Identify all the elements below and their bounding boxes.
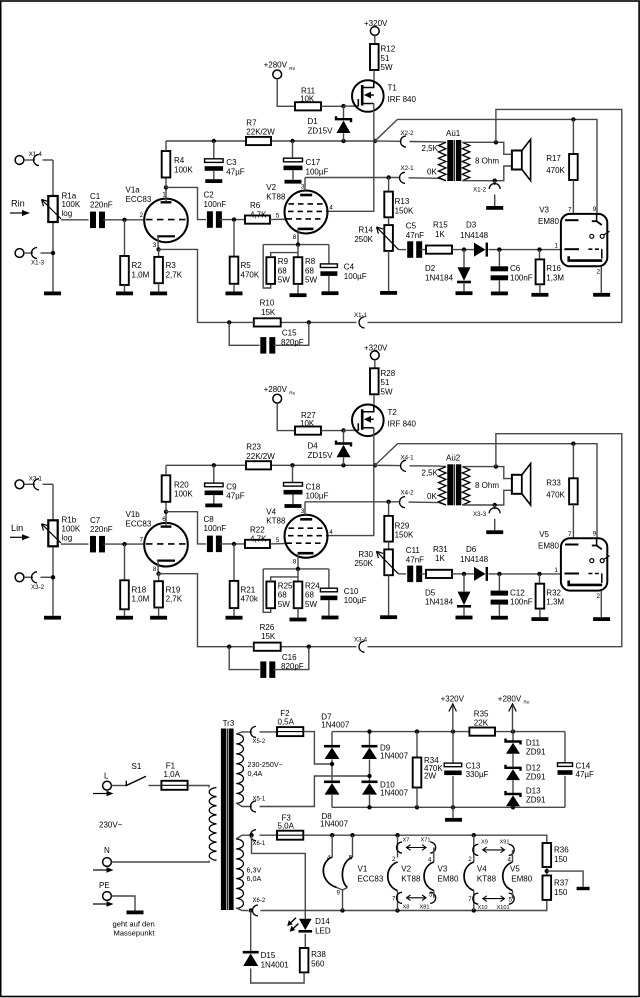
capacitor C13: [452, 732, 454, 764]
pentode V4: [285, 515, 328, 558]
ground D2: [456, 616, 473, 620]
ground C3: [205, 504, 222, 508]
ground speaker: [486, 206, 503, 210]
resistor R28: [370, 368, 379, 394]
svg-text:R24: R24: [305, 581, 320, 590]
zener D11: [512, 732, 514, 742]
svg-text:5: 5: [276, 213, 280, 220]
resistor R8: [297, 245, 299, 258]
svg-text:100µF: 100µF: [306, 492, 329, 501]
tube V5 heater: [503, 862, 513, 891]
mosfet T2: [352, 405, 384, 437]
svg-text:5: 5: [276, 537, 280, 544]
svg-text:1N4148: 1N4148: [460, 231, 489, 240]
svg-text:R26: R26: [260, 623, 275, 632]
svg-text:7: 7: [568, 531, 572, 538]
terminal +320V: [370, 27, 379, 36]
ground R14: [380, 615, 397, 619]
svg-text:V2: V2: [401, 865, 411, 874]
diode D15: [250, 911, 252, 952]
svg-text:1N4007: 1N4007: [380, 752, 409, 761]
svg-text:150K: 150K: [395, 531, 414, 540]
svg-text:T1: T1: [388, 84, 398, 93]
svg-text:R23: R23: [246, 443, 261, 452]
connector X1-3: [15, 249, 24, 258]
svg-text:ECC83: ECC83: [358, 874, 384, 883]
wire to heater ground: [547, 871, 583, 887]
svg-text:+320V: +320V: [441, 695, 465, 704]
svg-text:C11: C11: [406, 546, 421, 555]
svg-text:1K: 1K: [435, 230, 445, 239]
svg-text:100nF: 100nF: [510, 598, 533, 607]
wire rail to screen line: [375, 119, 398, 141]
svg-text:9: 9: [593, 530, 597, 537]
svg-text:X101: X101: [497, 905, 510, 911]
node R36 R37: [546, 867, 548, 876]
svg-text:+320V: +320V: [364, 343, 388, 352]
resistor R6: [245, 216, 270, 224]
svg-text:100K: 100K: [174, 165, 193, 174]
svg-text:EM80: EM80: [438, 874, 459, 883]
wire sec2 top / break X6-1: [236, 835, 250, 839]
led D14: [299, 919, 312, 930]
svg-text:68: 68: [305, 266, 314, 275]
ground R14: [380, 291, 397, 295]
svg-text:ZD91: ZD91: [526, 748, 546, 757]
resistor R22: [245, 540, 270, 548]
svg-text:R36: R36: [554, 846, 569, 855]
svg-text:R3: R3: [166, 261, 177, 270]
resistor R38: [304, 934, 306, 948]
wire V2 anode pin3: [304, 502, 306, 515]
wire input bus X3-1-X3-2: [52, 484, 54, 616]
svg-text:4: 4: [327, 855, 331, 862]
wire feedback loop: [368, 109, 622, 322]
svg-text:22K: 22K: [474, 719, 489, 728]
rectifier D8: [324, 780, 340, 783]
svg-text:2: 2: [140, 212, 144, 219]
svg-text:X6-2: X6-2: [253, 898, 266, 904]
svg-text:150: 150: [554, 888, 568, 897]
wire C2 to R6: [220, 543, 245, 545]
wire cathode rail: [263, 244, 329, 246]
ground C6: [491, 616, 508, 620]
svg-text:R31: R31: [433, 545, 448, 554]
fuse F2: [277, 727, 303, 736]
svg-text:4: 4: [329, 529, 333, 536]
svg-text:Rin: Rin: [11, 199, 25, 209]
svg-text:EM80: EM80: [538, 217, 559, 226]
wire V5 pin2 ground: [600, 591, 602, 618]
wire C2 to R6: [220, 219, 245, 221]
potentiometer R14: [388, 217, 390, 225]
svg-text:5: 5: [429, 892, 433, 899]
svg-text:470K: 470K: [546, 490, 565, 499]
svg-text:250K: 250K: [354, 235, 373, 244]
svg-text:230-250V~: 230-250V~: [248, 760, 283, 769]
svg-text:Tr3: Tr3: [223, 719, 235, 728]
svg-text:R33: R33: [546, 478, 561, 487]
svg-text:3: 3: [301, 184, 305, 191]
svg-text:100µF: 100µF: [306, 167, 329, 176]
secondary winding: [462, 467, 470, 505]
resistor R36: [543, 843, 552, 867]
ground C17: [285, 504, 302, 508]
ground heater: [577, 887, 590, 890]
svg-text:X1-3: X1-3: [31, 260, 45, 267]
svg-text:LED: LED: [315, 927, 331, 936]
wire anode supply rail: [166, 140, 375, 142]
resistor R31: [426, 570, 452, 578]
ground R16: [531, 293, 548, 297]
ground input: [44, 292, 61, 296]
resistor R13: [388, 178, 390, 192]
svg-text:geht auf den: geht auf den: [113, 920, 155, 929]
svg-text:10K: 10K: [300, 95, 315, 104]
wire cathode pin 3: [157, 236, 159, 249]
capacitor C16: [229, 647, 259, 670]
svg-text:1,3M: 1,3M: [546, 598, 564, 607]
svg-text:ZD15V: ZD15V: [308, 127, 334, 136]
svg-text:R22: R22: [250, 525, 265, 534]
svg-text:8 Ohm: 8 Ohm: [475, 157, 499, 166]
resistor R20: [165, 502, 167, 512]
wire heater rail top: [303, 835, 547, 843]
ground PE: [127, 911, 144, 915]
ground R8: [290, 293, 307, 297]
break X7 X71: [397, 835, 399, 857]
svg-text:0K: 0K: [427, 168, 437, 177]
svg-text:1N4184: 1N4184: [425, 273, 454, 282]
svg-text:V1: V1: [358, 865, 368, 874]
svg-text:220nF: 220nF: [90, 201, 113, 210]
svg-text:68: 68: [278, 591, 287, 600]
wire input bus X1-4-X1-3: [52, 160, 54, 292]
wire R6 to g1: [270, 218, 287, 220]
svg-text:X2-1: X2-1: [401, 165, 415, 172]
svg-text:D1: D1: [308, 117, 319, 126]
wire 0V rail: [332, 806, 565, 808]
wire R10 to cathode: [159, 574, 254, 647]
resistor R9: [263, 245, 271, 288]
node bridge AC1: [331, 760, 333, 781]
wire R10 to cathode: [159, 249, 254, 322]
zener D4: [343, 430, 345, 442]
secondary 230-250V winding: [236, 734, 243, 803]
resistor R15: [426, 246, 452, 254]
svg-text:1,0M: 1,0M: [132, 595, 150, 604]
ground C17: [285, 180, 302, 184]
svg-text:2: 2: [597, 593, 601, 600]
svg-text:X8: X8: [403, 905, 410, 911]
svg-text:C9: C9: [226, 482, 237, 491]
svg-text:R2: R2: [132, 261, 143, 270]
svg-text:1: 1: [555, 243, 559, 250]
wire sec1 top / break X5-2: [236, 732, 252, 734]
ground C6: [491, 292, 508, 296]
wire EM80 supply line: [398, 444, 598, 539]
svg-text:5W: 5W: [305, 600, 317, 609]
svg-text:330µF: 330µF: [466, 770, 489, 779]
svg-text:2: 2: [392, 856, 396, 863]
resistor R17: [572, 119, 574, 154]
potentiometer R30: [388, 542, 390, 550]
wire cathode rail: [263, 568, 329, 570]
svg-text:L: L: [104, 772, 109, 781]
svg-text:820pF: 820pF: [281, 338, 304, 347]
svg-text:7: 7: [140, 537, 144, 544]
svg-text:V5: V5: [539, 530, 549, 539]
wire wiper to C: [61, 543, 89, 545]
wire anode supply rail: [166, 464, 375, 466]
connector X3-1: [15, 480, 24, 489]
svg-text:log: log: [62, 209, 73, 218]
svg-text:C8: C8: [204, 515, 215, 524]
resistor R27: [295, 427, 321, 435]
mosfet T1: [352, 80, 384, 112]
svg-text:R1b: R1b: [62, 516, 77, 525]
resistor R26: [254, 643, 281, 651]
svg-text:4,7K: 4,7K: [250, 210, 267, 219]
svg-text:EM80: EM80: [538, 541, 559, 550]
svg-text:+280V: +280V: [264, 385, 288, 394]
wire EM80 supply line: [398, 119, 598, 214]
svg-text:4: 4: [508, 857, 512, 864]
wire LED feed: [252, 835, 306, 919]
wire wiper to C: [61, 219, 89, 221]
svg-text:C18: C18: [306, 482, 321, 491]
ground R3: [150, 292, 167, 296]
resistor R18: [124, 544, 126, 580]
svg-text:8 Ohm: 8 Ohm: [475, 481, 499, 490]
svg-text:47nF: 47nF: [406, 231, 424, 240]
capacitor C17: [292, 141, 294, 158]
svg-text:1N4007: 1N4007: [321, 721, 350, 730]
svg-text:R15: R15: [433, 221, 448, 230]
wire R11 to gate node: [321, 105, 344, 107]
capacitor C11: [407, 566, 413, 583]
svg-text:S1: S1: [132, 762, 142, 771]
svg-text:R18: R18: [132, 585, 147, 594]
wire wiper to C5: [399, 249, 407, 251]
wire screen tap: [329, 141, 374, 211]
svg-text:R38: R38: [311, 950, 326, 959]
break X8 X81: [397, 892, 403, 903]
svg-text:8: 8: [293, 234, 297, 241]
break X4-2: [400, 497, 405, 508]
svg-text:ECC83: ECC83: [126, 519, 152, 528]
break X3-4: [359, 641, 365, 652]
svg-text:C6: C6: [510, 264, 521, 273]
svg-text:V2: V2: [266, 183, 276, 192]
svg-text:15K: 15K: [261, 632, 276, 641]
wire anode to C8: [166, 512, 206, 544]
svg-text:ZD15V: ZD15V: [308, 451, 334, 460]
svg-text:X6-1: X6-1: [253, 841, 266, 847]
capacitor C8: [207, 536, 213, 553]
svg-text:0K: 0K: [427, 492, 437, 501]
svg-text:R17: R17: [546, 154, 561, 163]
resistor R34: [416, 732, 418, 758]
svg-text:R37: R37: [554, 879, 569, 888]
ground R8: [290, 618, 307, 622]
svg-text:47µF: 47µF: [226, 492, 245, 501]
wire D3 to EM80: [489, 249, 561, 251]
svg-text:ZD91: ZD91: [526, 796, 546, 805]
capacitor C7: [90, 536, 96, 553]
svg-text:100K: 100K: [174, 490, 193, 499]
svg-text:1K: 1K: [435, 554, 445, 563]
break X1-1: [359, 317, 365, 328]
svg-text:4,7K: 4,7K: [250, 535, 267, 544]
svg-text:T2: T2: [388, 408, 398, 417]
svg-text:X3-2: X3-2: [31, 584, 45, 591]
svg-text:D3: D3: [466, 221, 477, 230]
ground R16: [531, 617, 548, 621]
svg-text:ECC83: ECC83: [126, 195, 152, 204]
wire R6 to g1: [270, 543, 287, 545]
resistor R7: [246, 137, 271, 145]
svg-text:1N4007: 1N4007: [380, 789, 409, 798]
capacitor C2: [207, 211, 213, 228]
capacitor C6: [498, 250, 500, 267]
ground R5: [226, 292, 243, 296]
wire secondary top: [462, 142, 512, 154]
svg-text:22K/2W: 22K/2W: [246, 452, 275, 461]
svg-text:Aü2: Aü2: [446, 453, 461, 462]
ground input: [44, 616, 61, 620]
svg-text:C1: C1: [90, 192, 101, 201]
svg-text:1,3M: 1,3M: [546, 273, 564, 282]
wire F1 to primary: [188, 786, 209, 788]
primary winding: [439, 467, 447, 505]
wire N to primary: [111, 861, 209, 863]
svg-text:1,0M: 1,0M: [132, 270, 150, 279]
svg-text:KT88: KT88: [401, 874, 421, 883]
svg-text:C4: C4: [344, 263, 355, 272]
svg-text:560: 560: [311, 960, 325, 969]
svg-text:X4-2: X4-2: [401, 489, 415, 496]
svg-text:470K: 470K: [241, 270, 260, 279]
svg-text:5: 5: [509, 897, 513, 904]
svg-text:X1-1: X1-1: [354, 312, 368, 319]
ground R3: [150, 616, 167, 620]
svg-text:2,7K: 2,7K: [166, 595, 183, 604]
magic eye V3: [561, 214, 607, 266]
break X2-1: [400, 172, 405, 183]
resistor R37: [543, 876, 552, 900]
svg-text:47nF: 47nF: [406, 555, 424, 564]
svg-text:C5: C5: [406, 222, 417, 231]
svg-text:KT88: KT88: [266, 192, 286, 201]
svg-text:C10: C10: [344, 587, 359, 596]
svg-text:1N4007: 1N4007: [320, 819, 349, 828]
svg-text:100K: 100K: [62, 525, 81, 534]
svg-text:C7: C7: [90, 516, 101, 525]
resistor R32: [539, 574, 541, 584]
svg-text:2,5K: 2,5K: [422, 468, 439, 477]
svg-text:10K: 10K: [300, 419, 315, 428]
break X1-2: [494, 181, 496, 185]
svg-text:100µF: 100µF: [344, 596, 367, 605]
svg-text:C16: C16: [282, 653, 297, 662]
svg-text:R21: R21: [241, 585, 256, 594]
ground speaker: [486, 530, 503, 534]
svg-text:V1b: V1b: [126, 510, 141, 519]
wire sec2 bottom / break X6-2: [236, 908, 248, 911]
svg-text:4: 4: [428, 857, 432, 864]
wire gate: [344, 105, 358, 107]
wire 0K-tap line: [305, 177, 401, 179]
svg-text:X10: X10: [478, 905, 488, 911]
capacitor C10: [328, 569, 330, 588]
svg-text:C3: C3: [226, 158, 237, 167]
resistor R19: [158, 574, 160, 582]
wire source down: [373, 104, 375, 142]
svg-text:+280V: +280V: [498, 695, 522, 704]
svg-text:100µF: 100µF: [344, 272, 367, 281]
svg-text:47µF: 47µF: [576, 770, 595, 779]
break X9 X91: [473, 835, 475, 862]
capacitor C14: [564, 732, 566, 763]
wire gate: [344, 429, 358, 431]
resistor R5: [233, 220, 235, 257]
svg-text:7: 7: [468, 896, 472, 903]
svg-text:470K: 470K: [546, 166, 565, 175]
svg-text:1N4148: 1N4148: [460, 555, 489, 564]
svg-text:8: 8: [153, 566, 157, 573]
svg-text:R16: R16: [546, 264, 561, 273]
wire B+ rail: [332, 731, 565, 733]
svg-text:+320V: +320V: [364, 19, 388, 28]
svg-text:R5: R5: [241, 261, 252, 270]
svg-text:Aü1: Aü1: [446, 129, 461, 138]
svg-text:IRF 840: IRF 840: [388, 419, 417, 428]
svg-text:X3-4: X3-4: [354, 636, 368, 643]
capacitor C5: [407, 241, 413, 257]
tube V4 heater: [464, 862, 474, 891]
svg-text:5W: 5W: [278, 600, 290, 609]
svg-text:Re: Re: [289, 66, 295, 71]
break X3-3: [494, 505, 496, 509]
wire D3 to EM80: [489, 573, 561, 575]
break X10 X101: [473, 893, 478, 904]
tube V3 heater: [424, 862, 434, 891]
capacitor C12: [498, 574, 500, 591]
svg-text:Massepunkt: Massepunkt: [114, 929, 156, 938]
primary winding Tr3: [209, 788, 216, 861]
svg-text:R4: R4: [174, 156, 185, 165]
svg-text:100K: 100K: [62, 200, 81, 209]
svg-text:X9: X9: [481, 840, 488, 846]
svg-text:2: 2: [468, 856, 472, 863]
capacitor C15: [229, 322, 259, 345]
svg-text:150K: 150K: [395, 206, 414, 215]
svg-text:51: 51: [381, 378, 390, 387]
ground R2: [116, 616, 133, 620]
svg-text:0,5A: 0,5A: [278, 718, 295, 727]
diode D5: [463, 574, 465, 592]
svg-text:R29: R29: [395, 521, 410, 530]
svg-text:D12: D12: [526, 764, 541, 773]
resistor R23: [246, 461, 271, 469]
svg-text:C12: C12: [510, 588, 525, 597]
svg-text:log: log: [62, 533, 73, 542]
terminal +280V: [273, 394, 282, 403]
svg-text:X3-3: X3-3: [473, 511, 487, 518]
svg-text:100nF: 100nF: [510, 273, 533, 282]
capacitor C4: [328, 245, 330, 264]
